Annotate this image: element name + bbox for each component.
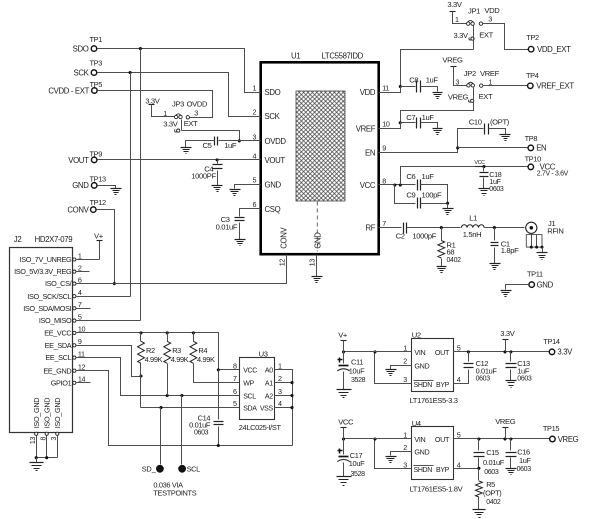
svg-text:4: 4: [457, 375, 461, 384]
svg-text:ISO_GND: ISO_GND: [32, 398, 41, 428]
svg-text:13: 13: [30, 437, 37, 445]
svg-text:9: 9: [78, 337, 82, 346]
svg-text:VCC: VCC: [338, 418, 354, 427]
svg-text:3: 3: [403, 375, 407, 384]
svg-text:TP3: TP3: [90, 59, 103, 68]
svg-text:CONV: CONV: [67, 205, 89, 214]
svg-text:1uF: 1uF: [489, 177, 501, 186]
svg-text:3: 3: [253, 132, 257, 141]
svg-text:OUT: OUT: [435, 435, 450, 444]
svg-text:7: 7: [382, 219, 386, 228]
svg-text:SCK: SCK: [74, 68, 90, 77]
svg-text:SDO: SDO: [265, 88, 281, 97]
svg-text:7: 7: [78, 300, 82, 309]
svg-text:SHDN: SHDN: [414, 467, 433, 474]
svg-text:1: 1: [455, 15, 459, 24]
svg-text:OVDD: OVDD: [265, 137, 287, 146]
svg-text:10: 10: [382, 120, 390, 129]
svg-text:1uF: 1uF: [422, 113, 435, 122]
svg-text:TP9: TP9: [90, 149, 103, 158]
svg-text:8: 8: [233, 362, 237, 371]
svg-text:ISO_GND: ISO_GND: [53, 398, 62, 428]
svg-text:GND: GND: [72, 181, 89, 190]
svg-text:3: 3: [278, 387, 282, 396]
svg-text:1uF: 1uF: [224, 141, 237, 150]
svg-text:C10: C10: [469, 117, 482, 126]
svg-text:11: 11: [382, 84, 389, 93]
svg-text:EN: EN: [536, 144, 546, 153]
svg-text:1.5nH: 1.5nH: [463, 230, 482, 239]
svg-text:4: 4: [78, 288, 82, 297]
svg-text:GND: GND: [313, 232, 322, 249]
svg-text:EXT: EXT: [184, 119, 198, 128]
svg-text:0402: 0402: [486, 499, 501, 506]
svg-text:5: 5: [233, 399, 237, 408]
svg-text:JP2: JP2: [464, 69, 476, 78]
svg-text:BYP: BYP: [436, 382, 450, 389]
svg-text:VREF: VREF: [480, 69, 500, 78]
svg-text:EE_SCL: EE_SCL: [45, 353, 71, 362]
svg-text:1: 1: [78, 251, 82, 260]
svg-text:C8: C8: [409, 76, 418, 85]
svg-text:EXT: EXT: [479, 31, 493, 40]
svg-text:1uF: 1uF: [426, 76, 439, 85]
svg-text:0603: 0603: [484, 469, 499, 476]
svg-text:SCL: SCL: [243, 393, 256, 400]
svg-text:A2: A2: [265, 393, 273, 400]
svg-text:VREG: VREG: [558, 435, 579, 444]
svg-text:SDO: SDO: [73, 44, 89, 53]
svg-text:4.99K: 4.99K: [171, 355, 189, 364]
svg-text:2.7V - 3.6V: 2.7V - 3.6V: [537, 170, 569, 177]
svg-text:TP1: TP1: [90, 35, 103, 44]
svg-text:3.3V: 3.3V: [557, 347, 573, 356]
svg-text:CSQ: CSQ: [265, 205, 281, 214]
svg-text:VREG: VREG: [495, 417, 516, 426]
svg-text:OVDD: OVDD: [187, 99, 208, 108]
svg-text:1.8pF: 1.8pF: [501, 246, 519, 255]
svg-text:C2: C2: [396, 232, 405, 241]
svg-text:VCC: VCC: [243, 368, 257, 375]
svg-text:GND: GND: [414, 448, 429, 457]
svg-text:VSS: VSS: [260, 405, 274, 412]
svg-text:ISO_5V/3.3V_REG: ISO_5V/3.3V_REG: [14, 267, 72, 276]
svg-text:C9: C9: [406, 191, 415, 200]
svg-text:0603: 0603: [517, 466, 532, 473]
svg-text:24LC025-I/ST: 24LC025-I/ST: [239, 423, 282, 432]
svg-text:TESTPOINTS: TESTPOINTS: [153, 488, 196, 497]
svg-text:9: 9: [382, 144, 386, 153]
svg-text:68: 68: [447, 248, 455, 257]
svg-text:3: 3: [51, 437, 58, 441]
svg-text:0.01uF: 0.01uF: [189, 421, 211, 430]
svg-text:1000pF: 1000pF: [412, 232, 436, 241]
svg-text:1: 1: [163, 109, 167, 118]
svg-text:3: 3: [488, 15, 492, 24]
svg-text:GPIO1: GPIO1: [51, 378, 72, 387]
svg-text:J2: J2: [14, 235, 22, 244]
svg-text:U2: U2: [412, 330, 421, 339]
svg-text:6: 6: [253, 200, 257, 209]
svg-text:1uF: 1uF: [422, 172, 435, 181]
svg-text:SCK: SCK: [265, 112, 281, 121]
svg-text:A0: A0: [265, 368, 273, 375]
svg-text:4.99K: 4.99K: [197, 355, 215, 364]
svg-text:3.3V: 3.3V: [454, 31, 470, 40]
svg-text:GND: GND: [414, 361, 429, 370]
svg-text:10uF: 10uF: [349, 459, 365, 468]
svg-text:OUT: OUT: [435, 348, 450, 357]
svg-text:0603: 0603: [476, 376, 491, 383]
svg-text:VREF_EXT: VREF_EXT: [536, 82, 574, 91]
svg-text:R4: R4: [198, 346, 207, 355]
svg-text:0603: 0603: [517, 376, 532, 383]
svg-text:TP5: TP5: [90, 80, 103, 89]
svg-text:4: 4: [253, 151, 257, 160]
svg-text:JP1: JP1: [468, 7, 480, 16]
svg-text:100pF: 100pF: [422, 191, 442, 200]
svg-text:5: 5: [457, 343, 461, 352]
svg-text:ISO_GND: ISO_GND: [42, 398, 51, 428]
svg-text:V+: V+: [338, 331, 348, 340]
svg-text:CVDD - EXT: CVDD - EXT: [48, 86, 89, 95]
svg-text:3.3V: 3.3V: [500, 329, 516, 338]
svg-text:3.3V: 3.3V: [447, 0, 463, 9]
svg-text:1: 1: [488, 77, 492, 86]
svg-text:TP14: TP14: [543, 337, 560, 346]
svg-text:5: 5: [253, 176, 257, 185]
svg-text:LT1761ES5-3.3: LT1761ES5-3.3: [410, 396, 458, 405]
svg-text:RF: RF: [365, 224, 375, 233]
svg-text:LTC5587IDD: LTC5587IDD: [322, 52, 364, 61]
svg-text:SCL: SCL: [187, 464, 201, 473]
svg-text:4.99K: 4.99K: [145, 355, 163, 364]
svg-text:C16: C16: [517, 447, 530, 456]
svg-text:VREG: VREG: [442, 56, 463, 65]
svg-text:VDD: VDD: [360, 88, 376, 97]
svg-text:GND: GND: [265, 180, 282, 189]
svg-text:EXT: EXT: [479, 92, 493, 101]
svg-text:(OPT): (OPT): [490, 118, 510, 127]
svg-text:C5: C5: [203, 141, 212, 150]
svg-text:EN: EN: [365, 148, 375, 157]
svg-text:HD2X7-079: HD2X7-079: [35, 235, 73, 244]
svg-text:4: 4: [278, 399, 282, 408]
svg-text:1: 1: [403, 343, 407, 352]
svg-text:GND: GND: [537, 280, 554, 289]
svg-text:A1: A1: [265, 380, 273, 387]
svg-text:C6: C6: [406, 172, 415, 181]
svg-text:2: 2: [253, 108, 257, 117]
svg-text:V+: V+: [94, 231, 104, 240]
svg-text:0603: 0603: [194, 430, 209, 437]
svg-text:C15: C15: [486, 448, 499, 457]
svg-text:1000PF: 1000PF: [191, 172, 216, 181]
svg-text:2: 2: [403, 443, 407, 452]
svg-text:0603: 0603: [489, 186, 504, 193]
svg-text:1: 1: [253, 83, 257, 92]
svg-text:U3: U3: [259, 349, 268, 358]
svg-text:3: 3: [194, 109, 198, 118]
svg-text:3528: 3528: [351, 471, 366, 478]
svg-text:RFIN: RFIN: [547, 226, 563, 235]
svg-text:LT1761ES5-1.8V: LT1761ES5-1.8V: [410, 484, 464, 493]
svg-text:3.3V: 3.3V: [163, 119, 179, 128]
svg-text:3528: 3528: [351, 377, 366, 384]
svg-text:1uF: 1uF: [517, 366, 530, 375]
svg-text:10uF: 10uF: [349, 366, 365, 375]
svg-text:EE_GND: EE_GND: [43, 366, 71, 375]
svg-text:TP2: TP2: [526, 33, 539, 42]
svg-text:0402: 0402: [447, 257, 462, 264]
svg-text:ISO_7V_UNREG: ISO_7V_UNREG: [20, 255, 72, 264]
svg-text:6: 6: [233, 387, 237, 396]
svg-text:ISO_MISO: ISO_MISO: [39, 316, 72, 325]
svg-text:VDD: VDD: [484, 6, 500, 15]
svg-text:VOUT: VOUT: [68, 156, 89, 165]
svg-text:0.01uF: 0.01uF: [483, 458, 505, 467]
svg-text:TP13: TP13: [90, 174, 107, 183]
svg-text:TP15: TP15: [543, 424, 560, 433]
svg-text:2: 2: [278, 374, 282, 383]
svg-text:VIN: VIN: [414, 435, 425, 444]
svg-text:1uF: 1uF: [519, 456, 532, 465]
svg-text:BYP: BYP: [436, 467, 450, 474]
svg-text:VCC: VCC: [360, 181, 376, 190]
svg-text:TP11: TP11: [527, 270, 543, 279]
svg-text:VIN: VIN: [414, 348, 425, 357]
svg-text:7: 7: [233, 374, 237, 383]
svg-text:TP8: TP8: [525, 134, 538, 143]
svg-text:EE_SDA: EE_SDA: [45, 341, 72, 350]
svg-text:SD: SD: [142, 465, 152, 474]
svg-text:SDA: SDA: [243, 405, 257, 412]
svg-text:VREG: VREG: [448, 92, 469, 101]
svg-text:8: 8: [382, 176, 386, 185]
svg-text:WP: WP: [243, 380, 254, 387]
svg-text:13: 13: [308, 259, 317, 267]
svg-text:C7: C7: [406, 113, 415, 122]
svg-text:JP3: JP3: [172, 99, 184, 108]
svg-text:VREF: VREF: [356, 124, 376, 133]
svg-text:CONV: CONV: [280, 227, 289, 249]
svg-text:L1: L1: [469, 213, 477, 222]
svg-text:VDD_EXT: VDD_EXT: [537, 45, 571, 54]
svg-text:ISO_SCK/SCL: ISO_SCK/SCL: [27, 292, 71, 301]
svg-text:TP4: TP4: [526, 71, 539, 80]
svg-text:ISO_SDA/MOSI: ISO_SDA/MOSI: [23, 304, 71, 313]
svg-text:VOUT: VOUT: [265, 156, 286, 165]
svg-text:R2: R2: [146, 346, 155, 355]
svg-text:0.01uF: 0.01uF: [476, 366, 498, 375]
svg-text:(OPT): (OPT): [483, 488, 501, 497]
svg-text:R3: R3: [172, 346, 181, 355]
svg-text:EE_VCC: EE_VCC: [44, 329, 71, 338]
svg-text:12: 12: [278, 259, 287, 267]
svg-text:0.01uF: 0.01uF: [216, 222, 238, 231]
svg-text:ISO_CS/: ISO_CS/: [45, 279, 73, 288]
svg-text:U4: U4: [412, 419, 421, 428]
svg-text:3: 3: [455, 77, 459, 86]
svg-text:SHDN: SHDN: [414, 382, 433, 389]
svg-text:TP12: TP12: [90, 198, 107, 207]
svg-text:2: 2: [403, 357, 407, 366]
svg-text:C11: C11: [351, 357, 363, 366]
svg-text:U1: U1: [291, 52, 300, 61]
